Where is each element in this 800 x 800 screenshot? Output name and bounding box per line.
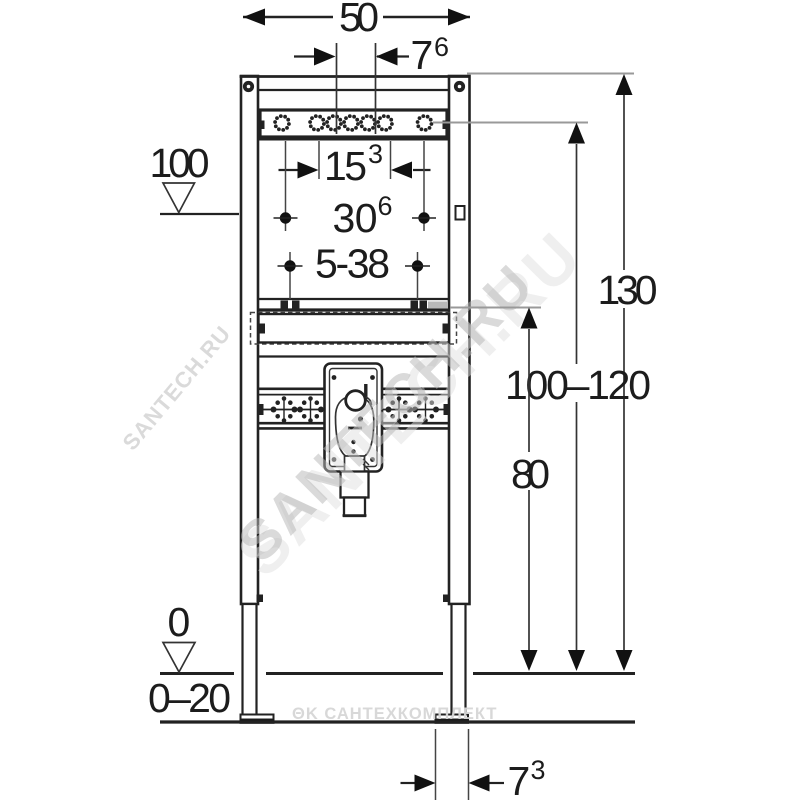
drain bell [336, 397, 374, 459]
strip left notch [259, 121, 265, 130]
rail left notch [259, 404, 264, 415]
trap ring [346, 391, 366, 411]
dimension line 100-120 [576, 144, 578, 650]
right foot tube [452, 604, 466, 716]
rail flower clusters [259, 396, 448, 423]
right leg bracket [456, 206, 465, 220]
right foot plate [436, 715, 469, 720]
svg-text:130: 130 [598, 267, 658, 313]
dimension line 80 [528, 329, 530, 650]
extension line 80 [450, 307, 541, 309]
svg-text:5-38: 5-38 [315, 241, 390, 287]
washbasin fixation bar [259, 298, 449, 300]
lower rail left section [259, 389, 325, 429]
svg-text:0: 0 [168, 599, 191, 645]
dashed mounting box [251, 313, 457, 345]
svg-text:ΘΚ САНТЕХКОМПЛЕКТ: ΘΚ САНТЕХКОМПЛЕКТ [292, 705, 497, 723]
svg-text:30: 30 [333, 195, 378, 241]
left foot plate [241, 715, 274, 720]
bar gray block [428, 302, 448, 309]
perforated top strip [260, 110, 447, 137]
extension line 130 [467, 73, 634, 75]
extension line 100-120 [433, 122, 588, 124]
left clamp screw [257, 595, 264, 603]
dimension 7-6 [294, 32, 449, 78]
right leg [449, 76, 470, 604]
cross line below box [259, 355, 449, 357]
svg-text:6: 6 [378, 191, 393, 221]
plate inner rect [330, 369, 378, 467]
solid mounting box [259, 314, 450, 343]
left top bolt [243, 81, 254, 92]
right clamp screw [443, 595, 450, 603]
box right clamp [443, 324, 450, 334]
top rail inner line [259, 89, 449, 91]
svg-text:3: 3 [368, 139, 383, 169]
plate corner screws [332, 375, 337, 380]
right top bolt [454, 81, 465, 92]
rail right notch [444, 404, 449, 415]
frame group [240, 43, 471, 724]
mounting plate [325, 364, 383, 472]
dimension 30-6 [274, 141, 437, 241]
left foot tube [243, 604, 257, 716]
dimension 15-3 [279, 139, 431, 189]
bar clamp squares left [281, 301, 289, 309]
dimension line 130 [623, 95, 625, 650]
left leg [241, 76, 258, 604]
dimension 5-38 [278, 241, 431, 300]
tap line right [375, 43, 377, 134]
svg-text:80: 80 [511, 451, 550, 497]
dimension 7-3 bottom [401, 729, 546, 800]
box left clamp [259, 324, 266, 334]
svg-text:6: 6 [434, 32, 449, 62]
bell details [358, 416, 363, 421]
ground line bottom [160, 720, 635, 723]
strip right notch [443, 121, 449, 130]
svg-text:7: 7 [411, 32, 434, 78]
svg-text:7: 7 [508, 758, 531, 800]
bell outlet tube [345, 456, 365, 472]
strip dot rings [273, 114, 433, 132]
svg-text:3: 3 [531, 755, 546, 785]
frame top rail line [240, 75, 471, 78]
drain pipe lower [344, 498, 365, 517]
tap line left [336, 43, 338, 134]
dimension 50 [243, 0, 470, 40]
drain pipe upper [341, 472, 369, 498]
ground line 0 level [160, 672, 635, 675]
trap lever [364, 384, 367, 399]
lower rail right section [382, 389, 449, 429]
svg-text:50: 50 [339, 0, 379, 40]
svg-text:100: 100 [150, 140, 210, 186]
bar clamp squares right [411, 301, 419, 309]
svg-text:15: 15 [324, 143, 367, 189]
svg-text:100–120: 100–120 [505, 362, 651, 408]
svg-text:0–20: 0–20 [148, 675, 231, 721]
tube hatch ticks [363, 459, 369, 465]
